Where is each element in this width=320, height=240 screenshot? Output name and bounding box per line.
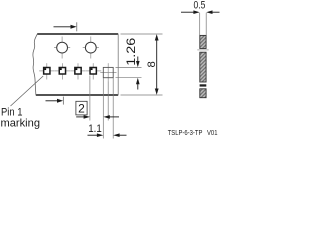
svg-text:2: 2: [78, 102, 85, 116]
dimension 8 line with arrows: [155, 34, 159, 95]
side view sprocket hole gap center line: [197, 49, 208, 51]
extension line pocket5 bottom to 1.26 dim: [116, 77, 142, 79]
dimension 2 boxed label: [76, 101, 87, 115]
dimension 2 line right arrow: [103, 115, 119, 119]
dimension 0.5 left arrow: [181, 10, 200, 14]
sprocket hole 1 center lines: [54, 37, 70, 59]
dimension 2 line left arrow: [76, 115, 90, 119]
sprocket hole 2 center lines: [83, 37, 99, 59]
tape left break line: [33, 34, 37, 95]
svg-text:marking: marking: [1, 118, 41, 130]
svg-text:V01: V01: [207, 128, 218, 137]
empty pocket 5 outline: [103, 67, 113, 77]
pocket row center lines: [39, 63, 101, 79]
dimension 0.5 right arrow: [206, 10, 219, 14]
svg-text:8: 8: [146, 61, 158, 67]
svg-text:1.26: 1.26: [126, 38, 138, 66]
svg-text:TSLP-6-3-TP: TSLP-6-3-TP: [168, 128, 203, 137]
side view component (chip) in pocket: [200, 84, 207, 86]
extension line tape bottom to 8 dim: [121, 94, 163, 96]
tape top edge: [37, 33, 118, 35]
sprocket hole 1: [57, 42, 68, 53]
side view tape strip hatched sections: [200, 35, 206, 97]
empty pocket 5 center lines: [100, 63, 116, 81]
component 3 in pocket: [75, 68, 81, 75]
dimension 1.1 line left arrow: [88, 133, 104, 137]
component 2 in pocket: [59, 68, 65, 75]
transport direction arrow top: [54, 22, 77, 31]
svg-text:1.1: 1.1: [88, 123, 102, 135]
side view: extension lines above strip: [200, 13, 207, 35]
sprocket hole 2: [85, 42, 96, 53]
dimension 1.26 lower arrow: [136, 78, 140, 90]
extension line tape top to 8 dim: [121, 33, 163, 35]
dimension 1.26 upper arrow: [136, 57, 140, 68]
tape bottom edge: [36, 94, 118, 96]
extension line pocket5 top to 1.26 dim: [116, 66, 142, 68]
svg-text:0.5: 0.5: [194, 0, 206, 12]
extension line pocket5 right: [112, 78, 114, 139]
pin 1 marking leader line: [11, 76, 44, 106]
component 1 in pocket: [44, 68, 50, 75]
dimension 1.1 line right arrow: [113, 133, 126, 137]
extension line pocket5 left: [102, 78, 104, 139]
svg-text:Pin 1: Pin 1: [1, 106, 23, 118]
extension line pocket5 center: [107, 82, 109, 121]
transport direction arrow bottom: [46, 97, 64, 105]
extension line pocket4 left: [89, 76, 91, 121]
component 4 in pocket: [90, 68, 96, 75]
tape right break edge: [117, 34, 119, 95]
